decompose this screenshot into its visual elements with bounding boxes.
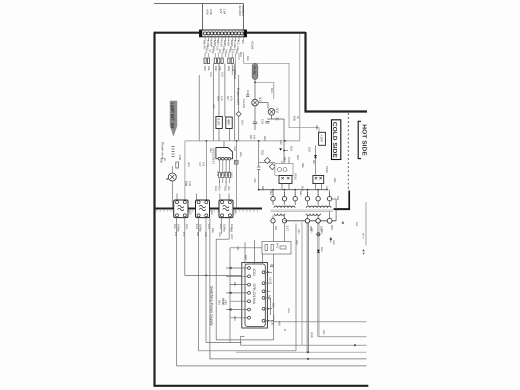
svg-text:R33: R33 [261,150,264,155]
svg-text:L03: L03 [210,210,213,215]
svg-text:PC01: PC01 [294,173,297,180]
svg-text:C21: C21 [236,246,239,251]
svg-text:C18: C18 [204,232,207,237]
svg-text:L04: L04 [234,210,237,215]
svg-text:D36: D36 [315,125,318,130]
svg-text:Switching Power Supply: Switching Power Supply [209,286,213,326]
svg-text:0.5A: 0.5A [209,9,213,15]
svg-text:C23: C23 [269,277,272,282]
svg-text:R39: R39 [261,186,264,191]
svg-text:682: 682 [230,228,233,233]
svg-text:D32: D32 [308,147,311,152]
svg-text:AC: AC [241,40,244,44]
svg-text:L02: L02 [189,210,192,215]
svg-text:C03: C03 [209,72,212,77]
svg-text:4.7k: 4.7k [220,96,223,101]
svg-text:R10: R10 [209,148,212,153]
svg-text:5.5V: 5.5V [217,118,221,126]
svg-text:C07: C07 [198,162,201,167]
svg-text:R22: R22 [268,295,271,300]
svg-text:C53: C53 [332,240,335,245]
svg-text:Power-on H: Power-on H [236,88,240,106]
svg-text:1000p: 1000p [222,224,225,232]
svg-text:50/60Hz: 50/60Hz [241,6,245,17]
svg-text:C12: C12 [226,172,229,177]
svg-text:R13: R13 [239,152,242,157]
svg-text:D05: D05 [246,56,249,61]
svg-text:C04: C04 [221,72,224,77]
svg-text:T01: T01 [336,196,339,201]
svg-text:D34: D34 [269,190,272,195]
svg-text:LAMP DET. SW: LAMP DET. SW [170,103,175,130]
svg-text:D23: D23 [295,240,298,245]
svg-text:R05: R05 [160,158,163,163]
svg-text:IC01: IC01 [252,269,256,276]
svg-text:D02: D02 [229,46,232,51]
svg-text:R02: R02 [214,66,217,71]
svg-text:C20: C20 [271,320,274,325]
svg-text:473: 473 [201,162,204,167]
svg-text:C13: C13 [195,224,198,229]
svg-text:R07: R07 [226,96,229,101]
svg-text:C31: C31 [246,90,249,95]
svg-text:R40: R40 [299,191,302,196]
svg-text:C51: C51 [297,229,300,234]
svg-text:D01: D01 [205,46,208,51]
svg-text:D21: D21 [233,282,236,287]
svg-text:10k: 10k [219,172,222,177]
svg-text:R16: R16 [211,228,214,233]
svg-text:C12: C12 [185,224,188,229]
svg-text:C24: C24 [287,308,290,313]
svg-text:R34: R34 [283,157,286,162]
svg-text:C13: C13 [214,186,217,191]
svg-text:R37: R37 [312,160,315,165]
svg-text:4.7k: 4.7k [229,96,232,101]
svg-text:R25: R25 [272,303,275,308]
svg-text:3.5T: 3.5T [286,226,289,232]
svg-text:48V: 48V [226,119,230,126]
svg-text:R09: R09 [239,52,242,57]
svg-text:N.C: N.C [237,40,240,45]
svg-text:C33: C33 [261,119,264,124]
svg-text:D04: D04 [241,120,244,125]
svg-text:R36: R36 [301,163,304,168]
svg-text:Q01: Q01 [187,162,190,167]
svg-text:R21: R21 [270,88,273,93]
svg-text:D53: D53 [320,247,323,252]
svg-text:10k: 10k [218,66,221,71]
svg-text:C19: C19 [218,232,221,237]
svg-text:C32: C32 [279,140,282,145]
svg-text:1SS: 1SS [216,46,219,51]
svg-text:R03: R03 [227,66,230,71]
svg-text:LAMP: LAMP [209,40,212,48]
svg-text:1.5A: 1.5A [222,9,226,15]
svg-text:2.2k: 2.2k [188,181,191,187]
svg-text:+15V: +15V [319,134,323,143]
svg-text:1000: 1000 [230,172,233,178]
svg-text:L01: L01 [174,232,177,237]
svg-text:R17: R17 [230,235,233,240]
svg-text:R41: R41 [276,243,279,248]
svg-text:1SS133: 1SS133 [242,99,245,109]
svg-text:C05: C05 [212,104,215,109]
svg-text:T01: T01 [274,226,277,231]
svg-text:R01: R01 [203,66,206,71]
svg-text:D: D [283,329,286,331]
svg-text:R35: R35 [293,116,296,121]
svg-text:COLD SIDE: COLD SIDE [331,122,338,158]
svg-text:C36: C36 [325,186,328,191]
svg-text:Q32: Q32 [276,108,279,114]
svg-text:F51: F51 [355,222,358,227]
svg-text:D52: D52 [320,229,323,234]
svg-text:R42: R42 [244,255,247,260]
svg-text:R24: R24 [218,300,221,305]
svg-text:PC02: PC02 [325,166,328,173]
svg-text:R04: R04 [212,46,215,51]
svg-text:SW+5V: SW+5V [203,40,206,49]
svg-text:C06: C06 [178,155,181,160]
svg-text:133: 133 [222,46,225,51]
svg-text:472: 472 [182,232,185,237]
svg-text:R11: R11 [216,172,219,177]
svg-text:222: 222 [196,232,199,237]
svg-text:24V: 24V [322,330,325,335]
svg-text:222: 222 [227,186,230,191]
svg-text:P6 4B: P6 4B [252,66,256,75]
svg-text:C01: C01 [236,46,239,51]
svg-text:AC-H: AC-H [362,233,365,239]
svg-text:R15: R15 [224,186,227,191]
svg-text:1SS133: 1SS133 [233,70,236,80]
svg-text:100: 100 [221,300,224,305]
svg-text:D33: D33 [296,155,299,160]
svg-text:D22: D22 [233,316,236,321]
svg-text:Q31: Q31 [259,97,262,103]
svg-text:C08: C08 [233,146,236,151]
svg-text:R06: R06 [217,96,220,101]
svg-text:10k: 10k [207,66,210,71]
svg-text:C35: C35 [253,178,256,183]
svg-text:D51: D51 [310,228,313,233]
svg-text:AC180: AC180 [251,41,254,50]
svg-text:D35: D35 [333,178,336,183]
svg-text:R14: R14 [217,186,220,191]
svg-text:D31: D31 [290,146,293,151]
svg-text:STR-Z2154A: STR-Z2154A [252,284,256,305]
svg-text:C11: C11 [173,224,176,229]
svg-text:R32: R32 [263,136,266,141]
svg-text:C22: C22 [224,300,227,305]
svg-text:HOT SIDE: HOT SIDE [360,124,367,156]
svg-text:+48V: +48V [226,40,229,47]
svg-text:R51: R51 [330,225,333,230]
svg-text:GND: GND [310,332,313,338]
svg-text:DET: DET [216,40,219,46]
svg-text:R12: R12 [223,172,226,177]
svg-text:R26: R26 [278,321,281,326]
